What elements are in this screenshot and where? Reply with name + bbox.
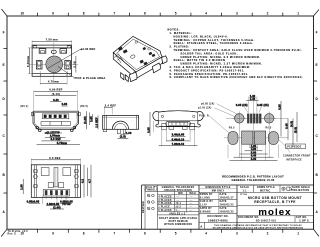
isometric view body xyxy=(113,36,162,78)
svg-text:1:1: 1:1 xyxy=(243,189,248,192)
pcb pattern large pads xyxy=(228,131,278,145)
svg-text:Rev. G: Rev. G xyxy=(8,233,17,236)
svg-text:⌀3.00 REF: ⌀3.00 REF xyxy=(81,47,96,51)
side view left dim xyxy=(96,115,99,129)
svg-text:R0.5: R0.5 xyxy=(266,126,272,129)
bottom view dims below xyxy=(27,196,74,210)
notes text block xyxy=(168,29,304,80)
pcb pattern bottom dims xyxy=(230,145,278,161)
svg-text:1: 1 xyxy=(297,11,299,15)
ec stamp bottom left xyxy=(8,230,29,236)
zone letters right xyxy=(315,31,318,215)
svg-text:(2.40): (2.40) xyxy=(53,206,61,209)
svg-text:1.85: 1.85 xyxy=(90,116,93,122)
svg-text:(R0.1): (R0.1) xyxy=(21,105,29,108)
svg-text:2008/01/23: 2008/01/23 xyxy=(220,203,235,206)
zone letters left xyxy=(2,31,5,215)
pcb pattern right dims xyxy=(278,101,297,147)
isometric view legs xyxy=(121,56,167,82)
quality symbols column xyxy=(145,186,159,192)
side view bottom dims xyxy=(117,132,132,139)
svg-text:(4.5): (4.5) xyxy=(290,121,293,127)
svg-text:4: 4 xyxy=(205,11,207,15)
svg-text:6.5 REF: 6.5 REF xyxy=(49,156,61,160)
svg-text:7: 7 xyxy=(113,11,115,15)
bottom view outline xyxy=(31,165,80,198)
svg-text:ANGLES ± 3 ˚: ANGLES ± 3 ˚ xyxy=(169,212,187,215)
svg-text:2008/01/23: 2008/01/23 xyxy=(220,210,235,213)
svg-text:molex: molex xyxy=(258,207,291,218)
svg-text:7.50 mm: 7.50 mm xyxy=(46,38,59,42)
quality symbol glyphs xyxy=(147,194,154,210)
top view dimension 4.75 bottom xyxy=(40,71,67,85)
svg-text:3.40±0.05: 3.40±0.05 xyxy=(172,134,185,137)
svg-text:0.35: 0.35 xyxy=(278,104,281,110)
bottom view solder pads xyxy=(45,190,68,199)
pcb pattern caption xyxy=(222,174,284,182)
svg-text:1.05: 1.05 xyxy=(21,184,24,190)
svg-text:2.4 REF: 2.4 REF xyxy=(105,104,117,108)
svg-text:5.00mm: 5.00mm xyxy=(26,55,30,67)
svg-text:INTERFACE: INTERFACE xyxy=(286,158,302,161)
drawn checked approved rows xyxy=(199,192,237,213)
rear view dims below xyxy=(159,130,198,147)
tolerance rows text xyxy=(158,196,192,216)
svg-text:5: 5 xyxy=(175,11,177,15)
svg-text:E: E xyxy=(3,63,5,67)
svg-text:(R0.5): (R0.5) xyxy=(80,105,88,108)
svg-text:6: 6 xyxy=(144,11,146,15)
isometric view surface details xyxy=(118,41,155,66)
svg-text:⌀1.45 (2X): ⌀1.45 (2X) xyxy=(198,107,211,110)
top view dimension 7.50 xyxy=(32,38,72,45)
svg-text:6.90 REF: 6.90 REF xyxy=(49,88,62,92)
bottom view left dim xyxy=(21,179,24,194)
svg-text:METRIC: METRIC xyxy=(260,189,271,192)
side view outline xyxy=(103,115,139,133)
svg-text:PCB EDGE: PCB EDGE xyxy=(287,146,301,149)
svg-text:0.85: 0.85 xyxy=(147,127,150,133)
label pick and place area with leader xyxy=(58,67,106,80)
svg-text:9: 9 xyxy=(52,232,54,236)
svg-text:5.0 REF: 5.0 REF xyxy=(51,138,62,141)
svg-text:REVISED: REVISED xyxy=(142,201,145,213)
svg-text:8.30: 8.30 xyxy=(251,158,257,161)
svg-text:7: 7 xyxy=(113,232,115,236)
svg-text:J.LIU: J.LIU xyxy=(200,203,207,206)
top view dimension 5.00 left xyxy=(26,48,33,74)
front view corner labels R0.1 R0.5 xyxy=(21,105,89,108)
svg-text:2: 2 xyxy=(267,11,269,15)
label pcb edge xyxy=(279,140,306,149)
svg-text:8: 8 xyxy=(83,11,85,15)
pcb pattern holes xyxy=(233,112,277,126)
svg-text:F: F xyxy=(3,31,5,35)
document number row xyxy=(199,216,314,223)
top view outline xyxy=(32,45,72,76)
svg-text:INCORPORATED AND SHOULD NOT BE: INCORPORATED AND SHOULD NOT BE USED WITH… xyxy=(213,227,304,230)
svg-text:E: E xyxy=(316,63,318,67)
zone numbers top xyxy=(21,11,300,15)
svg-text:(6.15): (6.15) xyxy=(52,92,60,96)
title block frame xyxy=(142,185,314,229)
label connector front interface xyxy=(283,145,311,161)
front view outline xyxy=(31,111,80,129)
front view dims below xyxy=(37,131,81,145)
svg-text:1: 1 xyxy=(297,232,299,236)
svg-text:5: 5 xyxy=(175,232,177,236)
svg-text:10: 10 xyxy=(21,11,25,15)
svg-text:⌀0.85 (2X): ⌀0.85 (2X) xyxy=(201,103,214,106)
svg-text:PROJECTION: PROJECTION xyxy=(292,189,310,192)
svg-text:6. COMPLIANT TO RoHS DIRECTIVE: 6. COMPLIANT TO RoHS DIRECTIVE 2002/95/E… xyxy=(170,76,304,79)
svg-text:2008/01/17: 2008/01/17 xyxy=(220,196,235,199)
svg-text:PICK & PLACE AREA: PICK & PLACE AREA xyxy=(75,76,106,80)
svg-text:2.54mm: 2.54mm xyxy=(50,135,60,138)
svg-text:GENERAL TOLERANCE ±0.05: GENERAL TOLERANCE ±0.05 xyxy=(231,178,274,182)
svg-text:F: F xyxy=(316,31,318,35)
svg-text:WITHIN DIMENSIONS: WITHIN DIMENSIONS xyxy=(164,223,192,226)
svg-text:S.LONG: S.LONG xyxy=(200,196,211,199)
svg-text:4.2: 4.2 xyxy=(81,179,84,183)
front view dims above xyxy=(34,88,78,111)
svg-text:2.40: 2.40 xyxy=(250,98,256,101)
svg-text:2: 2 xyxy=(267,232,269,236)
svg-text:TITLE: TITLE xyxy=(240,194,247,196)
svg-text:0.60: 0.60 xyxy=(62,103,68,106)
svg-text:MM ONLY: MM ONLY xyxy=(212,189,225,192)
pcb pattern small pads xyxy=(247,114,261,124)
front view feet xyxy=(36,126,76,131)
svg-text:S.WANG: S.WANG xyxy=(200,210,211,213)
svg-text:0.65 (2X): 0.65 (2X) xyxy=(236,104,248,107)
document number cell xyxy=(207,215,228,223)
scale metric projection row xyxy=(237,185,314,192)
svg-text:1.8 REF: 1.8 REF xyxy=(96,117,99,128)
svg-text:(1.28): (1.28) xyxy=(84,116,87,124)
svg-text:1 OF 2: 1 OF 2 xyxy=(299,219,309,223)
front view right dims xyxy=(84,111,93,129)
svg-text:0.65 (2X): 0.65 (2X) xyxy=(257,104,269,107)
dimension style cell xyxy=(199,186,237,192)
general tolerances block xyxy=(158,186,200,215)
svg-text:1.00: 1.00 xyxy=(126,132,132,135)
drawing title xyxy=(240,194,302,204)
svg-text:0.35±0.05: 0.35±0.05 xyxy=(27,201,40,204)
svg-text:A: A xyxy=(200,225,202,229)
svg-text:RECOMMENDED P.C.B. PATTERN LAY: RECOMMENDED P.C.B. PATTERN LAYOUT xyxy=(222,174,284,178)
side view top dim 2.4 xyxy=(104,104,116,115)
svg-text:5.40±0.10: 5.40±0.10 xyxy=(172,138,185,141)
svg-text:105017-0001: 105017-0001 xyxy=(208,218,228,222)
pcb pattern extension lines xyxy=(228,125,278,161)
pcb pattern top dims xyxy=(236,95,269,113)
label dia 3.00 REF with leader xyxy=(48,47,96,68)
svg-text:9: 9 xyxy=(52,11,54,15)
bottom view right dims xyxy=(81,165,91,198)
pcb pattern r05 labels xyxy=(229,126,272,129)
front view tongue xyxy=(41,122,71,126)
top view right dim 3.08 xyxy=(73,56,76,73)
zone numbers bottom xyxy=(21,232,300,236)
front view terminal slot xyxy=(42,114,68,119)
svg-text:7.20±0.10: 7.20±0.10 xyxy=(172,143,185,146)
svg-text:4.75mm: 4.75mm xyxy=(48,80,60,84)
top view pick and place circle xyxy=(30,43,79,81)
svg-text:5.75mm: 5.75mm xyxy=(57,142,67,145)
molex logo xyxy=(237,206,314,218)
pcb pattern callouts xyxy=(198,103,239,134)
isometric view front seam xyxy=(114,54,135,75)
svg-text:0.40: 0.40 xyxy=(53,99,59,102)
svg-text:RECEPTACLE, B TYPE: RECEPTACLE, B TYPE xyxy=(254,200,296,204)
svg-text:6: 6 xyxy=(144,232,146,236)
svg-text:4: 4 xyxy=(205,232,207,236)
svg-text:4.7: 4.7 xyxy=(88,179,91,183)
rear view left dim xyxy=(147,112,153,136)
bottom view dim 6.5 REF xyxy=(31,156,80,165)
rear view outline xyxy=(153,111,204,130)
pcb pattern centerlines xyxy=(224,96,288,151)
svg-text:SD-105017-001: SD-105017-001 xyxy=(256,219,277,222)
svg-text:SHT NO.: SHT NO. xyxy=(296,216,307,219)
svg-text:FULL R: FULL R xyxy=(199,114,209,117)
svg-text:(2.5): (2.5) xyxy=(120,136,126,139)
svg-text:THIS DRAWING CONTAINS INFORMAT: THIS DRAWING CONTAINS INFORMATION THAT I… xyxy=(214,224,302,227)
svg-text:(5.9): (5.9) xyxy=(294,127,297,133)
svg-text:3: 3 xyxy=(236,11,238,15)
svg-text:CONNECTOR FRONT: CONNECTOR FRONT xyxy=(283,154,311,157)
svg-text:8: 8 xyxy=(83,232,85,236)
svg-text:3: 3 xyxy=(236,232,238,236)
draft note xyxy=(159,217,198,226)
svg-text:DOCUMENT NO.: DOCUMENT NO. xyxy=(207,215,228,218)
svg-text:R0.5: R0.5 xyxy=(229,126,235,129)
svg-text:3.45: 3.45 xyxy=(285,123,288,129)
svg-text:---: --- xyxy=(190,209,193,212)
proprietary note strip xyxy=(200,222,303,229)
svg-text:(3.08): (3.08) xyxy=(73,61,76,69)
svg-text:PITCH: PITCH xyxy=(62,203,70,206)
